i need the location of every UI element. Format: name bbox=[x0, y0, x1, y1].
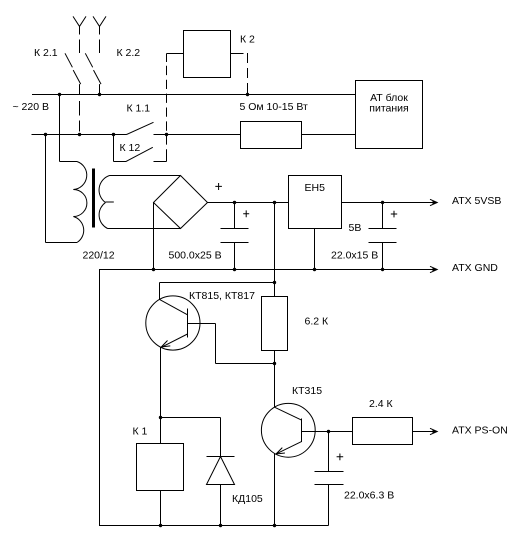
svg-text:~ 220 В: ~ 220 В bbox=[13, 101, 50, 113]
svg-text:К 1: К 1 bbox=[133, 426, 148, 438]
svg-text:К 12: К 12 bbox=[120, 142, 141, 154]
svg-text:5В: 5В bbox=[349, 222, 362, 234]
svg-text:К 1.1: К 1.1 bbox=[127, 103, 151, 115]
svg-text:КТ315: КТ315 bbox=[292, 385, 322, 397]
svg-text:6.2 К: 6.2 К bbox=[305, 316, 330, 328]
svg-text:К 2.2: К 2.2 bbox=[117, 47, 141, 59]
svg-text:22.0х6.3 В: 22.0х6.3 В bbox=[344, 490, 394, 502]
svg-text:КД105: КД105 bbox=[232, 493, 263, 505]
svg-text:питания: питания bbox=[369, 103, 408, 115]
svg-text:500.0х25 В: 500.0х25 В bbox=[169, 250, 222, 262]
svg-text:5 Ом 10-15 Вт: 5 Ом 10-15 Вт bbox=[240, 101, 308, 113]
svg-text:ЕН5: ЕН5 bbox=[305, 182, 326, 194]
svg-text:ATX PS-ON: ATX PS-ON bbox=[452, 425, 508, 437]
svg-text:К 2.1: К 2.1 bbox=[34, 47, 58, 59]
svg-text:КТ815, КТ817: КТ815, КТ817 bbox=[189, 290, 255, 302]
svg-text:ATX 5VSB: ATX 5VSB bbox=[452, 195, 501, 207]
svg-text:2.4 К: 2.4 К bbox=[369, 398, 394, 410]
svg-text:22.0х15 В: 22.0х15 В bbox=[331, 250, 378, 262]
svg-text:220/12: 220/12 bbox=[83, 250, 115, 262]
svg-text:К 2: К 2 bbox=[240, 34, 255, 46]
svg-text:ATX GND: ATX GND bbox=[452, 262, 498, 274]
